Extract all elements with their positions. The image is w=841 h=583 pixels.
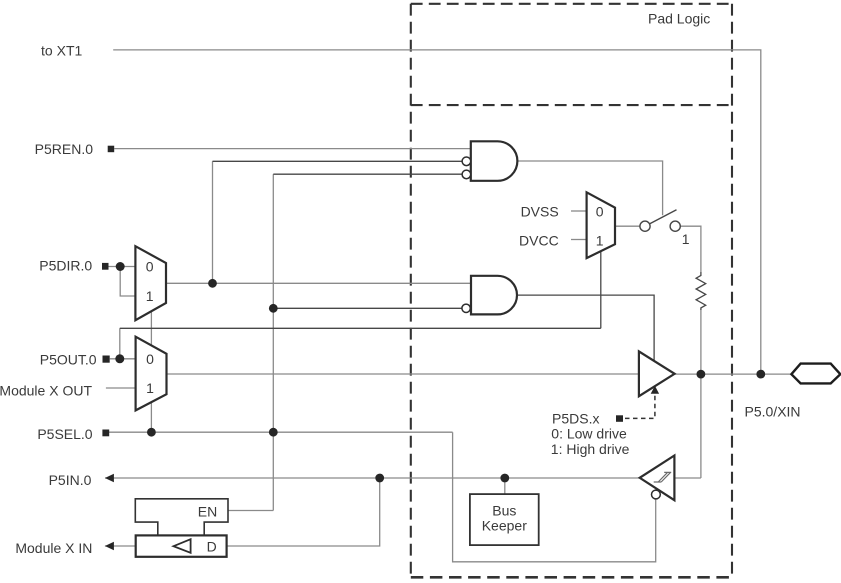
svg-text:Module X OUT: Module X OUT (0, 383, 92, 399)
svg-text:1: High drive: 1: High drive (551, 441, 630, 457)
svg-text:P5REN.0: P5REN.0 (35, 141, 94, 157)
wire switch to resistor (680, 226, 701, 272)
arrowhead Module X IN (105, 542, 114, 551)
wire P5OUT.0 riser (119, 328, 121, 359)
wire mux U1 select (150, 311, 152, 345)
junction dot mux U1 output (208, 279, 217, 288)
wire P5REN.0 (114, 148, 471, 150)
wire branch to latch D input (227, 478, 380, 546)
junction dot P5DIR branch (116, 262, 125, 271)
svg-text:P5IN.0: P5IN.0 (49, 472, 92, 488)
svg-text:P5DS.x: P5DS.x (552, 410, 599, 426)
wire mux U2 select (150, 402, 152, 432)
wire P5OUT.0 input (110, 358, 136, 360)
junction dot mux U2 select (147, 428, 156, 437)
svg-text:0: 0 (146, 351, 154, 367)
schmitt hysteresis symbol (654, 472, 672, 482)
svg-text:1: 1 (682, 231, 690, 247)
wire mux U1 output (166, 282, 471, 284)
junction dot XT1 tap (756, 370, 765, 379)
wire U3 input 2 (inverted) (213, 160, 463, 162)
mux U5 (DVSS/DVCC pull select) (587, 192, 615, 258)
wire DVCC (571, 239, 587, 241)
bus keeper box (470, 494, 539, 545)
P5DS.x register square (616, 415, 623, 422)
pad logic dashed divider (411, 104, 732, 106)
register bit square P5SEL.0 (102, 430, 109, 437)
junction dot resistor to pad net (697, 370, 706, 379)
svg-text:to XT1: to XT1 (41, 43, 82, 59)
switch contact circle left (640, 221, 650, 231)
svg-text:Module X IN: Module X IN (15, 540, 92, 556)
svg-text:1: 1 (146, 288, 154, 304)
arrowhead P5IN.0 (105, 474, 114, 483)
wire to XT1 (113, 50, 761, 374)
svg-text:D: D (207, 539, 217, 555)
wire U3 input 3 (inverted) (273, 173, 462, 175)
svg-text:0: 0 (596, 203, 604, 219)
and-gate U4 (471, 276, 517, 315)
svg-text:DVCC: DVCC (519, 233, 559, 249)
wire P5IN.0 (105, 477, 640, 479)
svg-text:Keeper: Keeper (482, 518, 527, 534)
wire Module X OUT (106, 387, 136, 389)
and-gate U3 input bubble pin 2 (462, 157, 471, 166)
svg-text:1: 1 (596, 233, 604, 249)
mux U2 (P5OUT) (136, 337, 167, 411)
svg-text:Pad Logic: Pad Logic (648, 10, 710, 26)
wire P5SEL.0 to schmitt enable bubble (453, 432, 656, 562)
wire branch to bus keeper (504, 478, 506, 494)
wire U4 input 2 (inverted) (273, 307, 462, 309)
svg-text:P5DIR.0: P5DIR.0 (39, 258, 92, 274)
wire schmitt input (674, 477, 701, 479)
svg-text:DVSS: DVSS (521, 203, 559, 219)
pad logic dashed box bottom edge (411, 576, 732, 579)
wire P5DIR.0 input (109, 266, 136, 268)
output buffer U6 (639, 351, 675, 396)
svg-text:P5.0/XIN: P5.0/XIN (745, 404, 801, 420)
latch clock triangle (174, 539, 191, 553)
pad logic dashed box left edge (410, 4, 412, 578)
pad P5.0/XIN hexagon (791, 364, 840, 384)
svg-text:Bus: Bus (492, 502, 516, 518)
wire P5SEL vertical bus (272, 174, 274, 510)
P5DS.x dashed control line (625, 393, 655, 419)
wire latch EN input (228, 510, 273, 512)
svg-text:1: 1 (146, 380, 154, 396)
wire Module X IN (105, 545, 136, 547)
wire mux U2 output (167, 373, 639, 375)
junction dot U4 input branch (269, 304, 278, 313)
switch lever (649, 210, 676, 224)
latch EN box (135, 499, 228, 536)
mux U1 (P5DIR) (135, 246, 166, 320)
wire riser to U3 input 2 (212, 161, 214, 283)
register bit square P5DIR.0 (102, 263, 109, 270)
junction dot P5IN latch branch (375, 474, 384, 483)
junction dot bus keeper tap (500, 474, 509, 483)
register bit square P5REN.0 (108, 146, 115, 153)
wire mux U5 select (600, 251, 602, 328)
wire mux U5 output (615, 225, 640, 227)
wire U4 output to buffer enable (517, 295, 654, 361)
latch D box (136, 535, 227, 556)
wire buffer output to pad (675, 373, 792, 375)
wire DVSS (571, 210, 587, 212)
and-gate U3 input bubble pin 3 (462, 170, 471, 179)
schmitt trigger U7 (640, 456, 675, 501)
junction dot P5OUT branch (115, 354, 124, 363)
switch contact circle right (670, 221, 680, 231)
P5DS.x arrowhead (651, 386, 659, 394)
and-gate U3 (471, 141, 518, 181)
svg-text:P5SEL.0: P5SEL.0 (37, 426, 92, 442)
wire U3 output to switch control (517, 161, 662, 215)
resistor R1 (696, 272, 706, 310)
svg-text:EN: EN (198, 503, 217, 519)
wire P5OUT to pull mux select (120, 327, 601, 329)
register bit square P5OUT.0 (103, 356, 110, 363)
svg-text:P5OUT.0: P5OUT.0 (40, 352, 97, 368)
wire P5SEL.0 (108, 431, 453, 433)
schmitt enable bubble (652, 490, 661, 499)
svg-text:0: Low drive: 0: Low drive (551, 426, 627, 442)
wire P5DIR.0 branch to mux input 1 (120, 267, 135, 297)
junction dot P5SEL branch (269, 428, 278, 437)
wire resistor to pad net (700, 310, 702, 479)
svg-text:0: 0 (146, 259, 154, 275)
and-gate U4 input bubble (462, 304, 470, 312)
pad logic dashed box right edge (731, 4, 733, 578)
pad logic dashed box top edge (411, 3, 732, 5)
